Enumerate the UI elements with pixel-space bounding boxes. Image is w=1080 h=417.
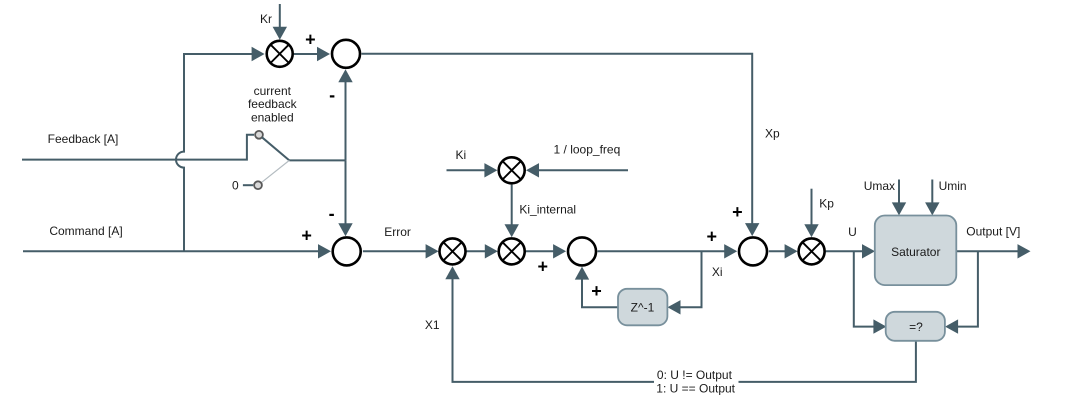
- wire: Saturator output: [956, 250, 1018, 252]
- arrowhead into sum2: [553, 244, 566, 258]
- wire: minus riser up into top summation: [345, 81, 347, 160]
- svg-text:Kp: Kp: [819, 196, 834, 210]
- arrowhead into Kp multiplier: [785, 244, 798, 258]
- svg-text:Umin: Umin: [939, 179, 967, 193]
- Saturator box: [875, 216, 957, 286]
- arrowhead U into comparator: [873, 319, 886, 333]
- wire: Umin vertical input: [931, 180, 933, 204]
- multiplier Ki_internal applier: [499, 238, 525, 264]
- svg-text:X1: X1: [425, 318, 440, 332]
- wire: Xi branch down to Z^-1: [680, 251, 702, 307]
- wire: multiplier X1 to multiplier Ki_internal: [466, 250, 485, 252]
- svg-text:1: U == Output: 1: U == Output: [656, 381, 735, 395]
- wire: Feedback [A] input line to switch top contact: [22, 135, 254, 160]
- svg-text:Umax: Umax: [864, 179, 895, 193]
- legend background: [654, 368, 739, 395]
- switch open contact thin line: [261, 160, 289, 182]
- svg-text:+: +: [305, 29, 316, 49]
- wire: command branch up to Kr multiplier (with hop over feedback line): [176, 54, 253, 251]
- summation sum1 (error node): [333, 237, 361, 265]
- svg-text:Ki: Ki: [455, 148, 466, 162]
- arrowhead minus riser down into sum1: [338, 223, 352, 236]
- arrowhead into Kr multiplier: [252, 47, 265, 61]
- svg-text:Ki_internal: Ki_internal: [519, 202, 576, 216]
- svg-text:0: 0: [232, 178, 239, 192]
- wire: Command [A] input line: [23, 250, 319, 252]
- multiplier Kp: [799, 238, 825, 264]
- svg-text:Output [V]: Output [V]: [966, 225, 1020, 239]
- svg-text:+: +: [707, 227, 718, 247]
- svg-text:Z^-1: Z^-1: [631, 300, 655, 314]
- arrowhead Ki into multiplier: [484, 163, 497, 177]
- arrowhead into Z^-1 right edge: [668, 300, 681, 314]
- multiplier X1: [440, 238, 466, 264]
- svg-text:Saturator: Saturator: [891, 245, 940, 259]
- svg-text:enabled: enabled: [251, 110, 294, 124]
- svg-text:U: U: [848, 225, 857, 239]
- summation sum3 (Xp+Xi): [739, 237, 767, 265]
- wire: sum1 to multiplier X1: [363, 250, 427, 252]
- wire: Umax vertical input: [898, 180, 900, 204]
- summation sum2 (integrator): [568, 237, 596, 265]
- wire: Kp gain vertical input: [811, 189, 813, 226]
- arrowhead output right: [1018, 244, 1031, 258]
- svg-text:+: +: [732, 202, 743, 222]
- comparator =? box: [886, 312, 945, 341]
- switch contact top circle: [255, 131, 263, 139]
- arrowhead 1/loop_freq into multiplier: [526, 163, 539, 177]
- svg-text:Kr: Kr: [260, 12, 272, 26]
- multiplier Ki x 1/loop_freq: [499, 157, 525, 183]
- arrowhead Ki_internal down: [505, 224, 519, 237]
- svg-text:0: U != Output: 0: U != Output: [657, 368, 733, 382]
- wire: switch output to minus node: [289, 159, 345, 161]
- arrowhead Umin down: [925, 202, 939, 215]
- wire: Z^-1 output to sum2: [582, 279, 618, 308]
- multiplier Kr: [267, 41, 293, 67]
- wire: top summation to Xp vertical into sum3: [362, 54, 753, 224]
- arrowhead into top summation: [317, 47, 330, 61]
- svg-text:1 / loop_freq: 1 / loop_freq: [554, 142, 621, 156]
- wire: Kp multiplier to Saturator: [826, 250, 863, 252]
- svg-text:Xi: Xi: [712, 265, 723, 279]
- arrowhead output into comparator: [945, 319, 958, 333]
- arrowhead Kp input down: [804, 224, 818, 237]
- svg-text:+: +: [538, 256, 549, 276]
- wire: Kr multiplier to top summation: [294, 53, 318, 55]
- svg-text:-: -: [329, 204, 335, 224]
- arrowhead X1 vertical up: [445, 266, 459, 279]
- summation top: [332, 40, 360, 68]
- arrowhead Xp down into sum3: [745, 223, 759, 236]
- wire: 0 stub to switch bottom contact: [243, 184, 253, 186]
- arrowhead into multiplier X1: [426, 244, 439, 258]
- Z^-1 box: [618, 289, 667, 326]
- svg-text:feedback: feedback: [248, 97, 298, 111]
- arrowhead Kr input down: [273, 27, 287, 40]
- svg-text:-: -: [329, 85, 335, 105]
- svg-text:=?: =?: [909, 320, 923, 334]
- wire: multiplier to sum2: [526, 250, 555, 252]
- wire: comparator result to X1 multiplier: [453, 278, 916, 382]
- wire: Ki_internal vertical: [511, 185, 513, 226]
- svg-text:current: current: [254, 84, 292, 98]
- svg-text:Command [A]: Command [A]: [49, 224, 122, 238]
- switch contact bottom circle: [254, 181, 262, 189]
- wire: sum3 to Kp multiplier: [769, 250, 786, 252]
- svg-text:Xp: Xp: [765, 126, 780, 140]
- wire: output branch down to comparator: [957, 251, 978, 326]
- svg-text:Feedback [A]: Feedback [A]: [48, 132, 119, 146]
- arrowhead into Saturator: [862, 244, 875, 258]
- arrowhead into multiplier Ki_internal: [485, 244, 498, 258]
- svg-text:Error: Error: [384, 225, 411, 239]
- arrowhead command into sum1: [318, 244, 331, 258]
- label current feedback enabled: [248, 84, 298, 125]
- wire: Kr gain vertical input: [279, 4, 281, 29]
- arrowhead minus riser up into top summation: [338, 69, 352, 82]
- arrowhead Z^-1 feedback up into sum2: [575, 267, 589, 280]
- switch blade: [262, 137, 289, 160]
- wire: minus riser down into sum1: [345, 160, 347, 224]
- svg-text:+: +: [301, 226, 312, 246]
- svg-text:+: +: [591, 281, 602, 301]
- wire: U branch down to comparator: [854, 251, 875, 326]
- wire: sum2 to sum3 (Xi): [598, 250, 726, 252]
- arrowhead Umax down: [892, 202, 906, 215]
- wire: Ki input: [447, 169, 486, 171]
- arrowhead Xi into sum3: [724, 244, 737, 258]
- wire: 1/loop_freq input: [538, 169, 628, 171]
